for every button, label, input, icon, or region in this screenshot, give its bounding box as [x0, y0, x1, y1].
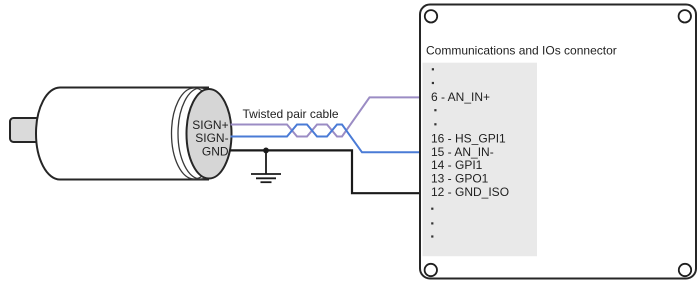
ring 1: [172, 88, 217, 179]
svg-text:Twisted pair cable: Twisted pair cable: [243, 107, 339, 121]
sensor body: [36, 88, 209, 180]
ring 2: [178, 88, 223, 179]
end cap: [187, 89, 232, 179]
svg-text:Communications and IOs connect: Communications and IOs connector: [426, 44, 617, 58]
screw hole bottom-left: [425, 264, 437, 276]
junction dot: [263, 148, 269, 154]
screw hole bottom-right: [679, 264, 691, 276]
wire GND black: [230, 150, 421, 193]
svg-text:12 - GND_ISO: 12 - GND_ISO: [431, 185, 509, 199]
connector box: [420, 5, 696, 279]
dot row 12: [431, 222, 433, 224]
screw hole top-right: [679, 10, 691, 22]
svg-text:6 - AN_IN+: 6 - AN_IN+: [431, 90, 490, 104]
svg-text:GND: GND: [202, 144, 229, 158]
dot row 4: [434, 109, 436, 111]
svg-text:14 - GPI1: 14 - GPI1: [431, 158, 483, 172]
wire SIGN- blue twisted: [231, 125, 421, 153]
pin list background: [423, 63, 538, 257]
ground symbol: [251, 150, 281, 182]
dot row 1: [432, 68, 434, 70]
svg-text:13 - GPO1: 13 - GPO1: [431, 172, 489, 186]
dot row 13: [431, 235, 433, 237]
shaft: [10, 118, 48, 142]
svg-text:16 - HS_GPI1: 16 - HS_GPI1: [431, 131, 506, 145]
dot row 11: [431, 208, 433, 210]
svg-text:SIGN+: SIGN+: [192, 118, 228, 132]
svg-text:15 - AN_IN-: 15 - AN_IN-: [431, 145, 494, 159]
screw hole top-left: [425, 10, 437, 22]
dot row 5: [434, 123, 436, 125]
dot row 2: [432, 82, 434, 84]
wire SIGN+ purple twisted: [231, 97, 421, 136]
svg-text:SIGN-: SIGN-: [195, 131, 228, 145]
